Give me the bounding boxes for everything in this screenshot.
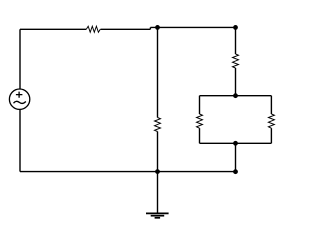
wire bottom horizontal from corner to ground node	[20, 171, 158, 173]
AC source V1 plus sign	[16, 92, 23, 98]
resistor R5 (right of parallel pair)	[268, 114, 274, 128]
ground symbol bars	[146, 213, 169, 217]
wire parallel box right lower	[270, 128, 272, 143]
wire parallel box left lower	[199, 128, 201, 143]
wire bottom horizontal from ground node to node D	[158, 171, 236, 173]
wire parallel box left upper	[199, 96, 201, 114]
wire jog step up near node A	[149, 27, 151, 29]
wire from jog through node A to node B	[150, 26, 235, 28]
wire from R2 down to ground node	[157, 132, 159, 172]
wire from source V1 bottom down to bottom-left corner	[19, 109, 21, 171]
node B junction dot (top right)	[233, 25, 238, 30]
wire parallel box right upper	[270, 96, 272, 114]
ground node junction dot	[155, 169, 160, 174]
wire ground stem	[157, 172, 159, 214]
resistor R3 (top right vertical)	[233, 54, 239, 68]
wire from R3 down to node C	[235, 68, 237, 96]
wire parallel box bottom	[200, 142, 272, 144]
node C junction dot (top of parallel pair)	[233, 93, 238, 98]
wire top-left horizontal from corner to resistor R1	[20, 28, 86, 30]
wire from node E down to node D	[235, 143, 237, 171]
resistor R4 (left of parallel pair)	[197, 114, 203, 128]
wire right vertical from node B down to resistor R3	[235, 27, 237, 54]
wire parallel box top	[200, 95, 272, 97]
AC source V1 circle	[9, 89, 29, 109]
resistor R2 (middle vertical)	[155, 118, 161, 132]
wire from R1 to jog	[101, 28, 151, 30]
wire middle vertical from node A down to resistor R2	[157, 27, 159, 117]
AC source V1 sine tilde	[14, 101, 26, 103]
node A junction dot (top middle)	[155, 25, 160, 30]
node E junction dot (bottom of parallel pair)	[233, 141, 238, 146]
wire left vertical from top-left corner down to source V1	[19, 29, 21, 89]
node D junction dot (bottom right)	[233, 169, 238, 174]
resistor R1 (horizontal, top wire)	[86, 26, 100, 32]
